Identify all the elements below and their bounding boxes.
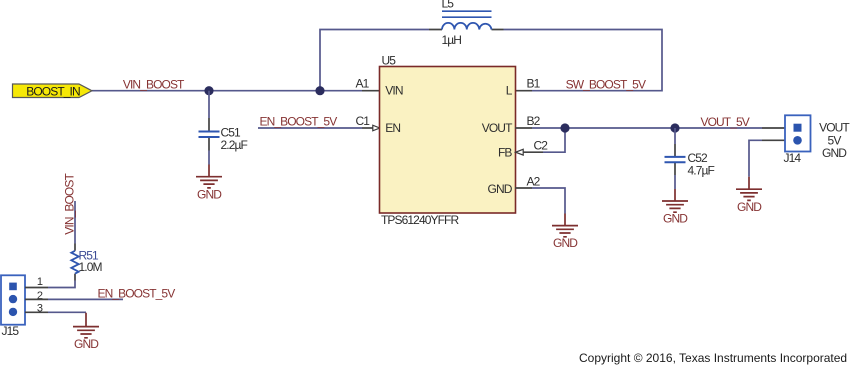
pin stub A2 (515, 187, 532, 189)
pin stub C2 with input arrow (516, 149, 543, 155)
connector J14 (784, 115, 811, 165)
svg-text:GND: GND (488, 182, 513, 196)
wire C51 drop (208, 91, 210, 165)
wire VIN_BOOST stub above R51 (74, 201, 76, 244)
pin stub J15 pin2 (25, 298, 48, 300)
svg-text:GND: GND (553, 236, 578, 250)
svg-text:C2: C2 (534, 139, 549, 153)
svg-text:EN_BOOST_5V: EN_BOOST_5V (98, 286, 176, 300)
svg-text:2.2µF: 2.2µF (221, 138, 248, 152)
ground below C52 (662, 189, 688, 226)
svg-text:GND: GND (197, 187, 222, 201)
pin stub J14 square pin (762, 127, 785, 129)
inductor L5 (442, 11, 492, 29)
svg-text:GND: GND (74, 337, 99, 351)
ground below C51 (196, 165, 222, 202)
svg-text:A1: A1 (356, 77, 370, 91)
pin stub B1 (515, 90, 532, 92)
svg-text:B2: B2 (527, 114, 541, 128)
node labels VOUT 5V GND beside J14 (819, 121, 850, 160)
svg-text:VOUT_5V: VOUT_5V (701, 115, 750, 129)
svg-text:L5: L5 (442, 0, 455, 11)
wire pin1 up to R51 (48, 281, 75, 288)
svg-text:VIN_BOOST: VIN_BOOST (63, 173, 77, 235)
svg-text:TPS61240YFFR: TPS61240YFFR (381, 213, 459, 227)
svg-text:4.7µF: 4.7µF (688, 164, 715, 178)
junction FB/VOUT (560, 123, 569, 132)
capacitor C52 pin stubs (674, 144, 676, 175)
capacitor C51 pin stubs (208, 118, 210, 151)
wire J14 gnd pin (749, 140, 762, 176)
resistor R51 pin stubs (74, 244, 76, 281)
svg-text:EN: EN (385, 121, 400, 135)
svg-text:U5: U5 (382, 53, 397, 67)
svg-text:1µH: 1µH (442, 33, 462, 47)
svg-text:1.0M: 1.0M (79, 260, 103, 274)
svg-text:FB: FB (498, 145, 512, 159)
ground below J15 pin3 (73, 313, 99, 351)
wire VOUT_5V (532, 127, 762, 129)
junction C52 tap (670, 123, 679, 132)
svg-text:B1: B1 (527, 77, 541, 91)
pin stub C1 with input arrow (362, 125, 380, 131)
resistor R51 (71, 251, 78, 274)
op-amp U5 TPS61240YFFR body (380, 53, 516, 227)
svg-text:GND: GND (822, 146, 847, 160)
pin stub J14 circle pin (762, 139, 785, 141)
wire top loop from VIN junction through L5 to SW node (320, 30, 662, 91)
wire EN_BOOST_5V stub (48, 298, 123, 300)
svg-text:A2: A2 (527, 175, 541, 189)
svg-text:Copyright © 2016, Texas Instru: Copyright © 2016, Texas Instruments Inco… (579, 351, 847, 365)
svg-text:VIN_BOOST: VIN_BOOST (123, 78, 185, 92)
pin stub A1 (362, 90, 380, 92)
pin stub B2 (515, 127, 532, 129)
svg-text:GND: GND (737, 200, 762, 214)
svg-text:J15: J15 (2, 324, 20, 338)
svg-text:J14: J14 (784, 151, 802, 165)
capacitor C52 (665, 157, 686, 162)
svg-text:SW_BOOST_5V: SW_BOOST_5V (566, 77, 646, 91)
svg-text:1: 1 (37, 276, 43, 288)
connector J15 (1, 275, 25, 338)
connector flag BOOST_IN (13, 84, 93, 98)
ground below J14 (736, 177, 762, 214)
svg-text:EN_BOOST_5V: EN_BOOST_5V (260, 115, 338, 129)
pin stub J15 pin1 (25, 287, 48, 289)
junction at L5 tap (315, 86, 324, 95)
wire pin3 to gnd (48, 311, 86, 313)
svg-text:GND: GND (663, 212, 688, 226)
svg-text:BOOST_IN: BOOST_IN (26, 84, 80, 98)
wire C52 drop (674, 128, 676, 189)
pin stub J15 pin3 (25, 311, 48, 313)
junction at C51 tap (204, 86, 213, 95)
wire GND pin A2 (532, 188, 565, 214)
svg-text:VIN: VIN (385, 84, 403, 98)
ground below U5 (552, 214, 578, 251)
capacitor C51 (199, 132, 220, 138)
wire FB to VOUT node (543, 128, 565, 152)
wire EN_BOOST_5V into EN (258, 127, 362, 129)
inductor L5 pin stubs (429, 29, 504, 31)
svg-text:VOUT: VOUT (482, 121, 513, 135)
svg-text:C1: C1 (356, 114, 371, 128)
wire VIN_BOOST main horizontal (92, 90, 362, 92)
